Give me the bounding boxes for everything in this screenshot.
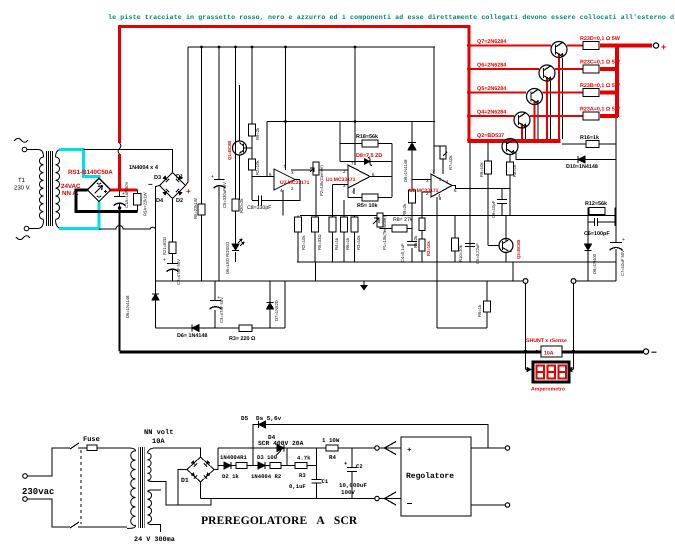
svg-text:R18=56k: R18=56k	[356, 134, 378, 140]
R16	[562, 143, 616, 145]
output terminal minus	[643, 349, 648, 354]
diode on x155	[152, 294, 159, 300]
svg-text:D3 100: D3 100	[257, 454, 278, 461]
svg-text:Q2=BD537: Q2=BD537	[477, 133, 504, 139]
C2 column	[351, 448, 353, 499]
capacitor C8 feedback	[252, 180, 300, 201]
svg-text:C3=47uF 50V: C3=47uF 50V	[219, 297, 224, 323]
column x412 D9 R9 C4	[411, 122, 413, 263]
resistor R5A	[134, 194, 142, 206]
svg-text:D4: D4	[156, 198, 164, 204]
svg-text:R7=10k: R7=10k	[448, 155, 453, 170]
red branch Q5	[469, 92, 526, 94]
horizontal y215	[300, 215, 588, 217]
switches	[70, 443, 79, 528]
svg-text:R10=20k: R10=20k	[458, 244, 463, 262]
transistor Q4	[514, 112, 530, 128]
wire black thick bridge negative	[76, 190, 138, 212]
svg-text:T1: T1	[18, 177, 26, 184]
column x252 R19 Q1 R2	[251, 47, 253, 200]
svg-text:C9=10pF: C9=10pF	[491, 200, 496, 218]
resistor R6	[419, 218, 425, 231]
svg-text:R16=1k: R16=1k	[580, 135, 599, 141]
svg-text:U1 MC33171: U1 MC33171	[326, 177, 356, 183]
svg-text:NN volt: NN volt	[144, 428, 173, 437]
resistor R21	[169, 242, 176, 254]
SCR D4	[276, 445, 284, 456]
svg-text:R9=2k: R9=2k	[255, 127, 260, 140]
op-amp U2	[431, 174, 452, 197]
svg-text:D6=1N4148: D6=1N4148	[125, 295, 130, 318]
svg-text:R8=1k: R8=1k	[512, 164, 517, 177]
red collector drops	[522, 54, 559, 140]
svg-text:1N4004 x 4: 1N4004 x 4	[129, 165, 159, 171]
svg-text:R4=1k: R4=1k	[334, 237, 339, 250]
svg-text:24 V 300ma: 24 V 300ma	[134, 536, 175, 544]
svg-text:D3: D3	[154, 175, 161, 181]
svg-text:le piste tracciate in grassett: le piste tracciate in grassetto rosso, n…	[108, 14, 674, 21]
svg-text:10A: 10A	[544, 351, 554, 357]
regolatore inputs	[375, 446, 379, 450]
resistor R23D	[583, 42, 599, 50]
svg-text:D9=1N4148: D9=1N4148	[403, 159, 408, 182]
regolatore box	[401, 437, 471, 516]
svg-text:D10=1N4148: D10=1N4148	[566, 164, 598, 170]
right column x616	[615, 117, 617, 281]
svg-text:R2=10k: R2=10k	[301, 235, 306, 250]
svg-text:R6=2k: R6=2k	[413, 235, 418, 248]
svg-text:C5=0,22uF: C5=0,22uF	[475, 243, 480, 264]
svg-text:−: −	[651, 348, 657, 359]
svg-text:U3 MC33171: U3 MC33171	[280, 180, 310, 186]
row y448	[218, 447, 375, 449]
svg-text:D6= 1N4148: D6= 1N4148	[177, 333, 207, 339]
ground bus thick	[120, 350, 644, 353]
svg-text:C7=10uF 50V: C7=10uF 50V	[620, 250, 625, 276]
transformer T1 secondary winding	[56, 157, 60, 219]
svg-text:10,000uF: 10,000uF	[339, 482, 367, 489]
svg-text:D1: D1	[181, 477, 189, 484]
diode D7	[267, 303, 274, 310]
svg-text:R2=10k: R2=10k	[255, 160, 260, 175]
svg-text:Amperometro: Amperometro	[531, 387, 565, 393]
secondary upper wires	[153, 448, 211, 505]
svg-text:R5A=22k1W: R5A=22k1W	[143, 192, 148, 216]
transformer T1 primary terminal bottom	[24, 226, 29, 231]
red collector bar	[468, 139, 561, 143]
op-amp U1	[348, 165, 370, 188]
svg-text:0,1uF: 0,1uF	[289, 483, 306, 490]
wire azzurro secondary top to bridge RS1	[59, 150, 99, 179]
diode D3	[162, 175, 169, 182]
svg-text:R2=10k: R2=10k	[426, 241, 431, 256]
column x235 R20 LED	[235, 47, 237, 262]
wire y229 with hump	[99, 226, 156, 230]
resistor R23B	[583, 89, 599, 97]
transformer T1 primary terminal top	[22, 147, 27, 152]
svg-text:−: −	[148, 180, 153, 189]
svg-text:D2 1k: D2 1k	[222, 473, 239, 480]
R4	[326, 445, 338, 451]
wire secondary stubs	[56, 150, 60, 229]
bridge rectifier D1-D4	[160, 173, 186, 199]
junction dot	[118, 206, 121, 209]
capacitor C1A	[114, 190, 126, 212]
bridge D1	[187, 457, 214, 482]
diode D1	[176, 175, 183, 182]
column x201 R5	[201, 47, 203, 281]
LED D5	[232, 244, 239, 251]
transformer T1 primary winding	[39, 157, 43, 219]
svg-text:Fuse: Fuse	[83, 436, 100, 444]
svg-text:+: +	[186, 187, 191, 196]
wire primary top	[27, 150, 44, 158]
svg-text:Ds 5,6v: Ds 5,6v	[256, 415, 282, 422]
svg-text:10A: 10A	[152, 438, 165, 446]
pot P3 red label	[419, 239, 425, 251]
svg-text:Q3=BC8B: Q3=BC8B	[516, 240, 521, 259]
svg-text:+: +	[211, 174, 214, 180]
horizontal y281	[156, 280, 524, 282]
column x219 C5	[218, 47, 220, 281]
y281 right segment and circles	[576, 280, 616, 282]
resistor R5 22k1W	[198, 204, 205, 215]
diode D8b x588	[513, 226, 588, 281]
svg-text:R9=2k: R9=2k	[402, 203, 407, 216]
pot P1 and R8	[377, 213, 383, 227]
R12 C6 parallel	[588, 208, 616, 227]
svg-text:R23D=0,1 Ω 5W: R23D=0,1 Ω 5W	[580, 36, 621, 42]
transistor Q6	[539, 65, 555, 81]
junction dots red	[467, 44, 471, 48]
svg-text:230vac: 230vac	[22, 487, 54, 497]
C1	[316, 483, 318, 499]
wire primary bottom	[29, 220, 44, 229]
red emitter rows	[567, 45, 583, 47]
svg-text:PREREGOLATORE A SCR: PREREGOLATORE A SCR	[201, 515, 358, 527]
horizontal y262	[297, 261, 616, 263]
svg-text:R9=10k: R9=10k	[479, 162, 484, 177]
pot R7	[440, 146, 446, 159]
resistor R18	[340, 122, 392, 144]
diode D2	[176, 189, 183, 196]
capacitor C3	[210, 300, 221, 302]
svg-text:R23B=0,1 Ω 5W: R23B=0,1 Ω 5W	[580, 83, 621, 89]
diode D4	[162, 189, 169, 196]
transistor Q3	[499, 239, 513, 253]
fuse	[78, 447, 127, 449]
op-amp U3	[266, 122, 268, 177]
resistor R23A	[583, 112, 599, 120]
svg-text:Q7=2N6284: Q7=2N6284	[477, 39, 506, 45]
R6 x487	[437, 281, 487, 328]
transistor Q1	[239, 85, 241, 141]
ammeter	[526, 369, 574, 371]
svg-text:4.7k: 4.7k	[297, 455, 311, 462]
resistor R23C	[583, 65, 599, 73]
wire black negative vertical to ground bus	[119, 212, 121, 352]
svg-text:R3: R3	[299, 472, 306, 479]
svg-text:230 V.: 230 V.	[14, 185, 31, 192]
svg-text:C4=0,1uF: C4=0,1uF	[400, 243, 405, 262]
svg-text:Q4=2N6284: Q4=2N6284	[477, 110, 506, 116]
svg-text:R23C=0,1 Ω 5W: R23C=0,1 Ω 5W	[580, 60, 621, 66]
wire bridge2 plus corner up	[186, 47, 189, 186]
wire red bold main positive rail	[120, 27, 470, 190]
column x488 R9b Q3 base	[488, 143, 499, 246]
svg-text:C1A=1nF 50V: C1A=1nF 50V	[124, 181, 129, 208]
D10	[516, 152, 616, 160]
svg-text:P2=10k(Cermet): P2=10k(Cermet)	[319, 165, 324, 196]
wire bridge2 minus corner down	[156, 186, 160, 329]
transformer T2 secondary lower	[148, 492, 152, 523]
svg-text:R3= 220 Ω: R3= 220 Ω	[229, 336, 256, 342]
transistor Q2	[502, 139, 518, 155]
row y424 D5	[253, 425, 488, 449]
resistor R19	[249, 124, 256, 136]
svg-text:R5=33Ω: R5=33Ω	[317, 234, 322, 250]
svg-text:R4: R4	[329, 454, 336, 461]
wire red bridge output	[109, 188, 138, 191]
svg-text:R23A=0,1 Ω 5W: R23A=0,1 Ω 5W	[580, 107, 621, 113]
rail bottom	[201, 498, 375, 500]
transformer T1 core	[47, 151, 53, 226]
resistor R5 10k	[348, 197, 392, 199]
svg-text:Regolatore: Regolatore	[406, 472, 454, 481]
svg-text:RS1-B140C50A: RS1-B140C50A	[68, 169, 113, 176]
svg-text:D8=1N400: D8=1N400	[592, 253, 597, 274]
svg-text:R8= 27k: R8= 27k	[393, 217, 413, 223]
svg-text:R6=1k: R6=1k	[345, 237, 350, 250]
capacitor C5 330uF	[214, 179, 225, 181]
resistor R20	[232, 199, 239, 211]
column x510 R8b	[509, 154, 511, 216]
junction dots top bus	[200, 46, 356, 49]
ground	[363, 281, 365, 285]
svg-text:D7=1N52D: D7=1N52D	[274, 300, 279, 321]
capacitor C7	[610, 242, 622, 244]
transformer T2 primary	[127, 448, 136, 528]
bridge connections	[178, 448, 218, 505]
output terminal	[653, 43, 658, 48]
svg-text:SCR 400V 20A: SCR 400V 20A	[258, 440, 304, 447]
svg-text:100V: 100V	[341, 489, 355, 496]
svg-text:D2: D2	[176, 198, 183, 204]
svg-text:1 10W: 1 10W	[322, 437, 340, 444]
svg-text:R12=56k: R12=56k	[585, 201, 607, 207]
red branch Q4	[469, 115, 514, 117]
svg-text:C8=330pF: C8=330pF	[247, 205, 271, 211]
outputs	[471, 448, 505, 505]
red branch Q6	[469, 68, 539, 70]
svg-text:D8=7,5 ZD: D8=7,5 ZD	[356, 153, 382, 159]
svg-text:R5=22k1W: R5=22k1W	[193, 198, 198, 219]
wire black secondary to second bridge along y149	[84, 150, 173, 173]
svg-text:D5=LED ROSSO: D5=LED ROSSO	[225, 241, 230, 274]
wire azzurro secondary bottom to bridge RS1	[59, 202, 99, 229]
svg-text:R3=10k: R3=10k	[356, 235, 361, 250]
zener D8	[340, 144, 392, 198]
svg-text:U2 MC33171: U2 MC33171	[409, 188, 439, 194]
row y465	[218, 448, 317, 479]
svg-text:D1: D1	[176, 174, 183, 180]
svg-text:+: +	[407, 447, 412, 455]
wire bridge2 bottom down	[172, 199, 174, 243]
red branch Q7	[469, 45, 551, 47]
svg-text:+: +	[622, 237, 625, 243]
wire crossover jog red over black	[118, 143, 121, 154]
pot P2	[313, 162, 319, 175]
wire terminal squiggles	[14, 139, 28, 143]
svg-text:1N4004 R2: 1N4004 R2	[251, 473, 282, 480]
resistor R2	[249, 159, 256, 170]
svg-text:Q6=2N6284: Q6=2N6284	[477, 63, 506, 69]
shunt box	[536, 350, 541, 354]
svg-text:+: +	[661, 42, 666, 52]
top bus y47	[188, 46, 435, 48]
svg-text:C2: C2	[356, 463, 363, 470]
resistor columns under U1	[298, 185, 355, 282]
capacitor C9	[501, 189, 503, 216]
horizontal y121	[267, 121, 435, 123]
wires to switch	[27, 448, 70, 527]
transistor Q5	[527, 89, 543, 105]
bridge rectifier RS1	[88, 178, 111, 202]
transistor Q7	[551, 42, 567, 58]
columns middle x437 x455 x470	[437, 143, 470, 328]
transformer T2 core	[138, 447, 145, 528]
svg-text:+: +	[163, 257, 166, 263]
svg-text:P1=10k(Tensione): P1=10k(Tensione)	[382, 216, 387, 250]
svg-text:SHUNT x rSense: SHUNT x rSense	[526, 338, 567, 344]
svg-text:R6=1k: R6=1k	[477, 304, 482, 317]
svg-text:Q5=2N6284: Q5=2N6284	[477, 86, 506, 92]
svg-text:R21=82Ω: R21=82Ω	[162, 237, 167, 255]
svg-text:Q1=BC8B: Q1=BC8B	[227, 141, 232, 160]
D6 row y328	[156, 281, 286, 328]
transformer T2 secondary upper	[148, 453, 152, 480]
svg-text:1N4004R1: 1N4004R1	[220, 454, 247, 461]
capacitor C2	[172, 254, 174, 264]
svg-text:C5=330uF 5V: C5=330uF 5V	[222, 182, 227, 208]
input terminals	[23, 474, 28, 479]
svg-text:R5= 10k: R5= 10k	[357, 203, 378, 209]
svg-text:D5: D5	[241, 415, 249, 422]
svg-text:C1: C1	[322, 478, 329, 485]
